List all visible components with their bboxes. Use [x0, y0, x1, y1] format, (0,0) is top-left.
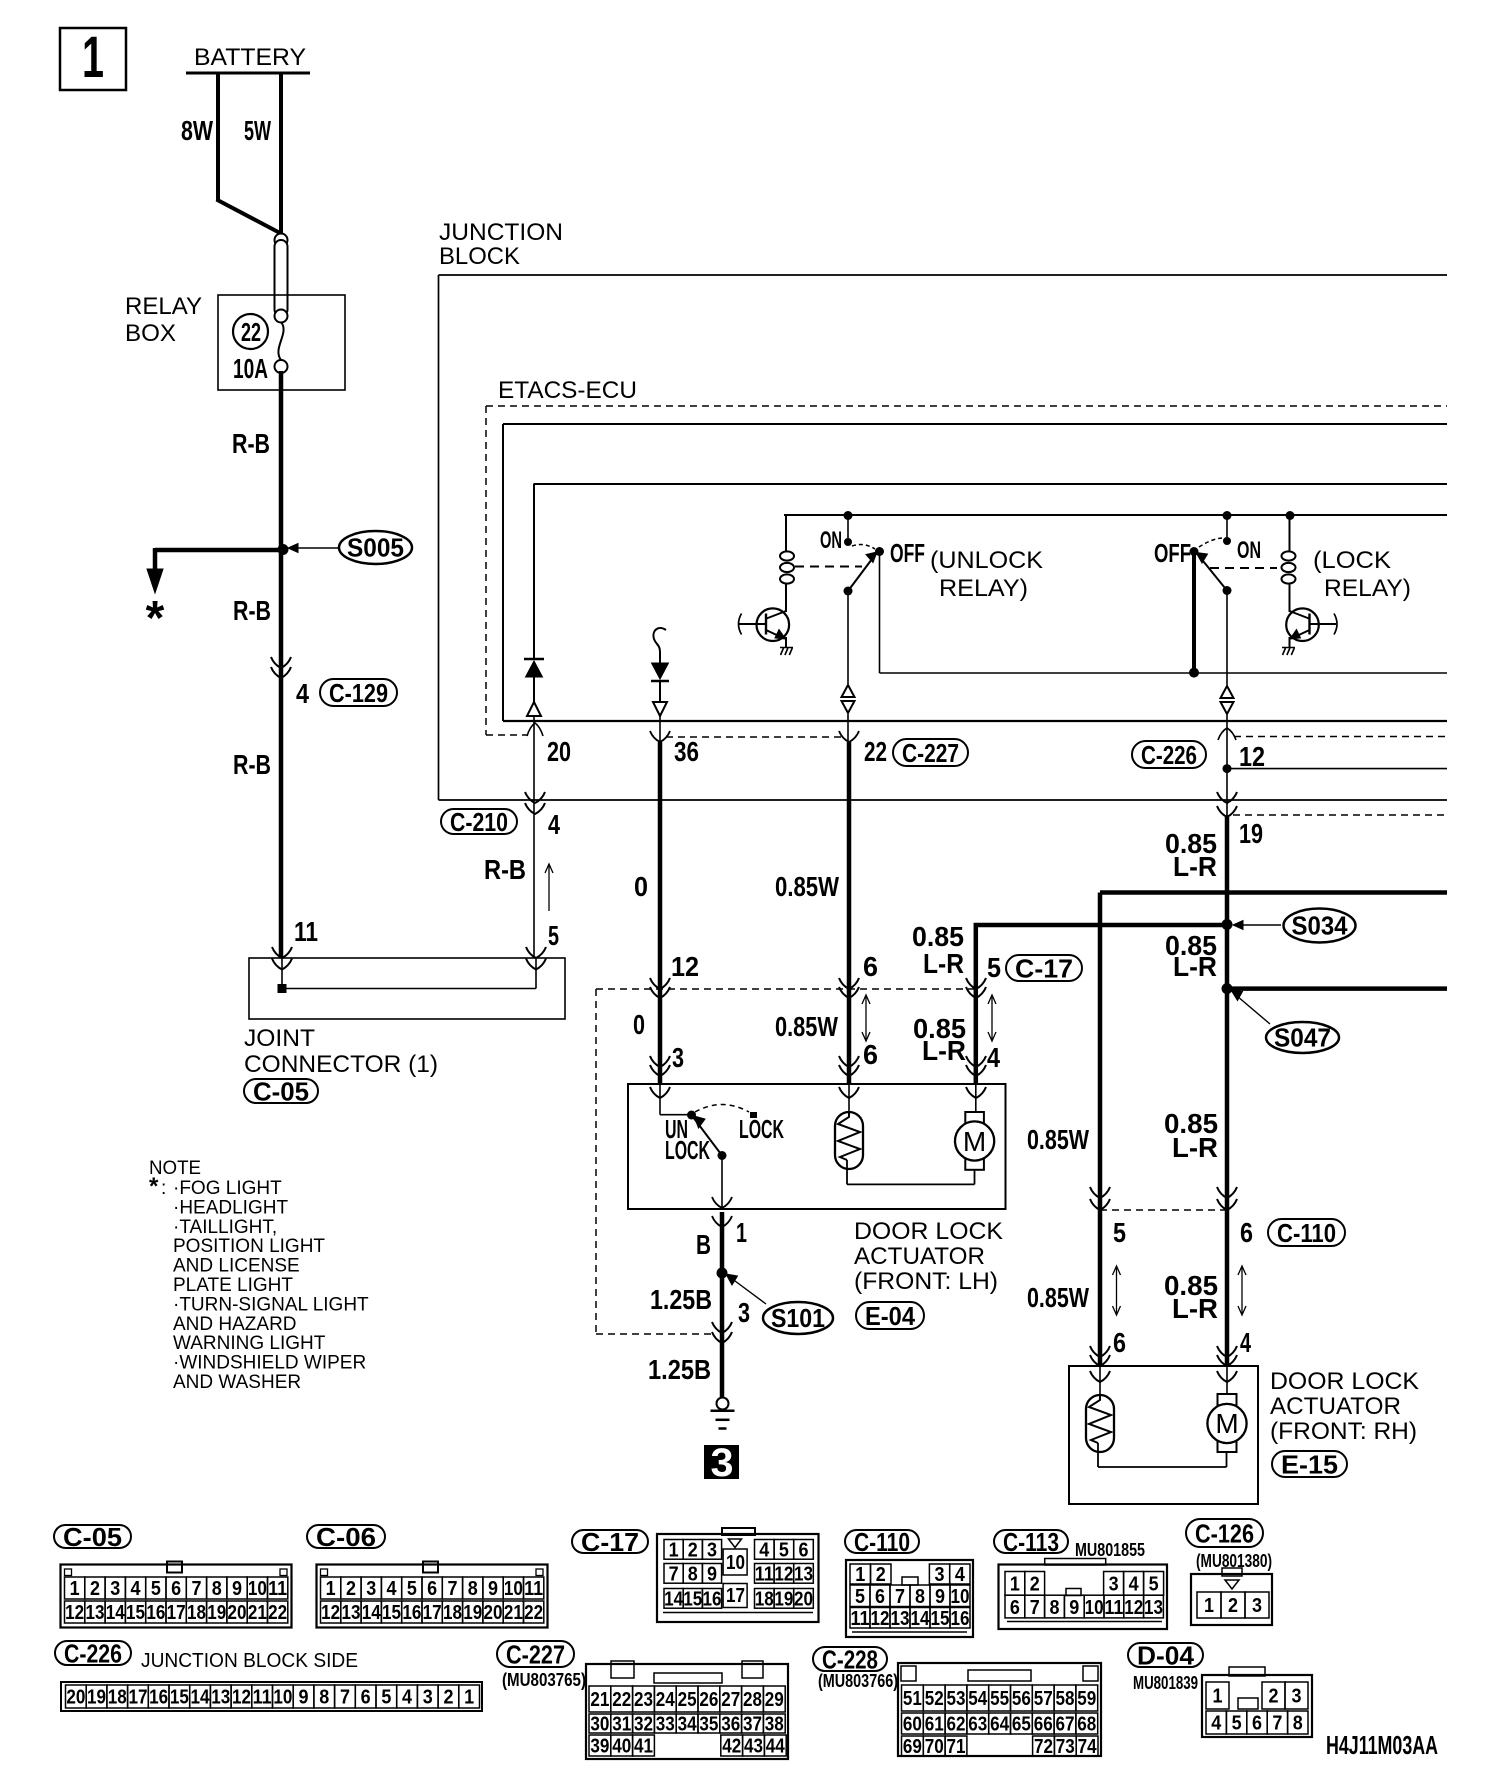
svg-text:37: 37 — [743, 1714, 762, 1736]
svg-text:17: 17 — [167, 1602, 186, 1624]
svg-text:43: 43 — [744, 1736, 763, 1758]
svg-text:13: 13 — [891, 1608, 910, 1630]
svg-text:29: 29 — [765, 1689, 784, 1711]
svg-text:1: 1 — [70, 1578, 80, 1600]
svg-text:6: 6 — [1240, 1217, 1253, 1248]
svg-text:ACTUATOR: ACTUATOR — [1270, 1393, 1401, 1420]
svg-text:1: 1 — [1010, 1574, 1020, 1596]
svg-text:2: 2 — [346, 1578, 356, 1600]
svg-text:12: 12 — [65, 1602, 84, 1624]
svg-text:·TAILLIGHT,: ·TAILLIGHT, — [173, 1217, 277, 1238]
svg-text:66: 66 — [1034, 1714, 1053, 1736]
svg-text:R-B: R-B — [232, 428, 270, 459]
svg-text:AND LICENSE: AND LICENSE — [173, 1256, 300, 1277]
svg-text:15: 15 — [126, 1602, 145, 1624]
svg-text:10: 10 — [726, 1552, 745, 1574]
svg-text:9: 9 — [232, 1578, 242, 1600]
svg-text:7: 7 — [191, 1578, 201, 1600]
svg-text:71: 71 — [947, 1736, 966, 1758]
svg-text:15: 15 — [931, 1608, 950, 1630]
svg-text:8W: 8W — [181, 115, 213, 146]
svg-text:JUNCTION: JUNCTION — [439, 219, 563, 246]
svg-text:·FOG LIGHT: ·FOG LIGHT — [173, 1178, 282, 1199]
svg-text:7: 7 — [895, 1586, 905, 1608]
svg-text:17: 17 — [128, 1687, 147, 1709]
svg-text:61: 61 — [925, 1714, 944, 1736]
svg-text:JUNCTION BLOCK SIDE: JUNCTION BLOCK SIDE — [141, 1650, 358, 1672]
svg-text:38: 38 — [765, 1714, 784, 1736]
svg-text:51: 51 — [903, 1688, 922, 1710]
svg-text:C-227: C-227 — [902, 738, 959, 768]
svg-text:4: 4 — [402, 1687, 413, 1709]
svg-text:R-B: R-B — [484, 854, 526, 885]
svg-text:5: 5 — [987, 952, 1001, 983]
svg-text:10: 10 — [248, 1578, 267, 1600]
svg-text:22: 22 — [612, 1689, 631, 1711]
svg-text:31: 31 — [612, 1714, 631, 1736]
svg-text:4: 4 — [987, 1042, 1000, 1073]
svg-text:15: 15 — [170, 1687, 189, 1709]
svg-text:1.25B: 1.25B — [648, 1354, 711, 1385]
svg-text:36: 36 — [721, 1714, 740, 1736]
svg-text:MU801855: MU801855 — [1075, 1540, 1145, 1560]
svg-text:2: 2 — [1030, 1574, 1040, 1596]
svg-text:4: 4 — [548, 809, 560, 840]
svg-text:BATTERY: BATTERY — [194, 44, 306, 71]
svg-text:5: 5 — [151, 1578, 161, 1600]
svg-text:L-R: L-R — [922, 1035, 966, 1066]
svg-text:3: 3 — [366, 1578, 376, 1600]
svg-text:36: 36 — [674, 736, 699, 767]
svg-text:30: 30 — [590, 1714, 609, 1736]
svg-text:8: 8 — [319, 1687, 329, 1709]
svg-text:5: 5 — [855, 1586, 865, 1608]
svg-text:14: 14 — [664, 1589, 684, 1611]
svg-text:6: 6 — [171, 1578, 181, 1600]
svg-text:9: 9 — [1069, 1597, 1079, 1619]
svg-text:(UNLOCK: (UNLOCK — [930, 547, 1043, 574]
svg-text:13: 13 — [794, 1564, 813, 1586]
svg-text:17: 17 — [726, 1585, 745, 1607]
svg-text:11: 11 — [268, 1578, 287, 1600]
svg-text:·WINDSHIELD WIPER: ·WINDSHIELD WIPER — [173, 1353, 366, 1374]
svg-text:8: 8 — [1050, 1597, 1060, 1619]
svg-text:8: 8 — [915, 1586, 925, 1608]
svg-text:12: 12 — [321, 1602, 340, 1624]
svg-text:2: 2 — [876, 1564, 886, 1586]
svg-text:18: 18 — [187, 1602, 206, 1624]
svg-text:L-R: L-R — [1172, 1293, 1218, 1324]
svg-text:4: 4 — [131, 1578, 142, 1600]
svg-text:12: 12 — [1124, 1597, 1143, 1619]
svg-text:2: 2 — [688, 1540, 698, 1562]
svg-text:4: 4 — [296, 678, 309, 709]
svg-text:S034: S034 — [1292, 911, 1348, 941]
svg-text:15: 15 — [382, 1602, 401, 1624]
svg-text:60: 60 — [903, 1714, 922, 1736]
svg-text:23: 23 — [634, 1689, 653, 1711]
svg-text:22: 22 — [524, 1602, 543, 1624]
svg-text:C-227: C-227 — [506, 1639, 565, 1669]
svg-text:5: 5 — [1113, 1217, 1126, 1248]
svg-text:7: 7 — [447, 1578, 457, 1600]
svg-text:JOINT: JOINT — [244, 1025, 315, 1052]
svg-text:RELAY): RELAY) — [939, 575, 1028, 602]
svg-text:*: * — [149, 1173, 159, 1200]
svg-text:S101: S101 — [771, 1303, 825, 1333]
svg-text:M: M — [963, 1126, 986, 1157]
svg-text:9: 9 — [488, 1578, 498, 1600]
svg-text:(MU803766): (MU803766) — [818, 1671, 898, 1691]
svg-text:1: 1 — [326, 1578, 336, 1600]
svg-text:21: 21 — [248, 1602, 267, 1624]
svg-text:21: 21 — [590, 1689, 609, 1711]
svg-text:2: 2 — [443, 1687, 453, 1709]
svg-text:55: 55 — [990, 1688, 1009, 1710]
svg-text:RELAY): RELAY) — [1324, 575, 1411, 602]
svg-text:28: 28 — [743, 1689, 762, 1711]
svg-text:24: 24 — [656, 1689, 676, 1711]
svg-text:65: 65 — [1012, 1714, 1031, 1736]
svg-text:3: 3 — [738, 1297, 750, 1328]
svg-text:27: 27 — [721, 1689, 740, 1711]
svg-text:12: 12 — [774, 1564, 793, 1586]
svg-text:C-210: C-210 — [450, 807, 508, 837]
svg-text:19: 19 — [1239, 818, 1263, 849]
svg-text:21: 21 — [504, 1602, 523, 1624]
svg-text:CONNECTOR (1): CONNECTOR (1) — [244, 1051, 438, 1078]
svg-text:2: 2 — [1269, 1686, 1279, 1708]
svg-text:M: M — [1215, 1408, 1238, 1439]
svg-text:57: 57 — [1034, 1688, 1053, 1710]
svg-text:15: 15 — [683, 1589, 702, 1611]
svg-text:1: 1 — [464, 1687, 474, 1709]
svg-text:0: 0 — [634, 871, 648, 902]
svg-text:1: 1 — [1213, 1686, 1223, 1708]
svg-text:14: 14 — [911, 1608, 931, 1630]
svg-text:62: 62 — [947, 1714, 966, 1736]
svg-text:16: 16 — [149, 1687, 168, 1709]
svg-text:25: 25 — [678, 1689, 697, 1711]
svg-text:69: 69 — [903, 1736, 922, 1758]
svg-text:16: 16 — [402, 1602, 421, 1624]
svg-text:11: 11 — [253, 1687, 272, 1709]
svg-text:DOOR LOCK: DOOR LOCK — [854, 1218, 1003, 1245]
svg-text:22: 22 — [864, 736, 887, 767]
svg-text:3: 3 — [1252, 1595, 1262, 1617]
svg-text:3: 3 — [1292, 1686, 1302, 1708]
svg-text:39: 39 — [590, 1736, 609, 1758]
svg-text:6: 6 — [361, 1687, 371, 1709]
svg-text:13: 13 — [211, 1687, 230, 1709]
svg-text:ACTUATOR: ACTUATOR — [854, 1243, 985, 1270]
svg-text:(FRONT: LH): (FRONT: LH) — [854, 1268, 998, 1295]
svg-text:6: 6 — [1010, 1597, 1020, 1619]
svg-text:1.25B: 1.25B — [650, 1284, 712, 1315]
svg-text:*: * — [146, 592, 165, 645]
svg-text:B: B — [696, 1229, 711, 1260]
svg-text:L-R: L-R — [1172, 1132, 1218, 1163]
svg-text:20: 20 — [547, 736, 571, 767]
svg-text:L-R: L-R — [923, 948, 964, 979]
svg-text:26: 26 — [699, 1689, 718, 1711]
svg-text:7: 7 — [340, 1687, 350, 1709]
svg-text:6: 6 — [427, 1578, 437, 1600]
svg-text:1: 1 — [736, 1217, 747, 1248]
svg-text:6: 6 — [1113, 1327, 1126, 1358]
svg-text:ETACS-ECU: ETACS-ECU — [498, 377, 637, 404]
svg-text:BOX: BOX — [125, 320, 176, 347]
svg-text:5: 5 — [779, 1540, 789, 1562]
svg-text:10: 10 — [273, 1687, 292, 1709]
svg-text:12: 12 — [671, 951, 699, 982]
svg-text:LOCK: LOCK — [739, 1114, 784, 1144]
svg-text:35: 35 — [699, 1714, 718, 1736]
svg-text:OFF: OFF — [1154, 538, 1191, 568]
svg-text:9: 9 — [299, 1687, 309, 1709]
svg-text:5: 5 — [1232, 1713, 1242, 1735]
svg-text:AND WASHER: AND WASHER — [173, 1372, 301, 1393]
svg-text:C-110: C-110 — [1277, 1218, 1336, 1248]
svg-text:6: 6 — [863, 951, 878, 982]
svg-text:3: 3 — [423, 1687, 433, 1709]
svg-text:18: 18 — [443, 1602, 462, 1624]
svg-text:5: 5 — [1149, 1574, 1159, 1596]
svg-text:1: 1 — [1204, 1595, 1214, 1617]
svg-text:ON: ON — [1237, 537, 1261, 564]
svg-text:·TURN-SIGNAL LIGHT: ·TURN-SIGNAL LIGHT — [173, 1294, 369, 1315]
svg-text:C-126: C-126 — [1195, 1518, 1254, 1548]
svg-text:5: 5 — [407, 1578, 417, 1600]
svg-text:6: 6 — [863, 1039, 878, 1070]
svg-text:68: 68 — [1077, 1714, 1096, 1736]
svg-text:C-129: C-129 — [329, 678, 388, 708]
svg-text:11: 11 — [851, 1608, 870, 1630]
svg-text:·HEADLIGHT: ·HEADLIGHT — [173, 1197, 288, 1218]
svg-text:6: 6 — [875, 1586, 885, 1608]
svg-text:22: 22 — [241, 317, 261, 347]
svg-text:12: 12 — [871, 1608, 890, 1630]
svg-text:3: 3 — [707, 1540, 717, 1562]
svg-text:2: 2 — [90, 1578, 100, 1600]
svg-text:12: 12 — [232, 1687, 251, 1709]
svg-text:1: 1 — [855, 1564, 865, 1586]
svg-text:20: 20 — [794, 1589, 813, 1611]
svg-text:E-15: E-15 — [1281, 1449, 1338, 1479]
svg-text:54: 54 — [968, 1688, 988, 1710]
svg-text:0: 0 — [633, 1009, 645, 1040]
svg-text:1: 1 — [669, 1540, 679, 1562]
svg-text:7: 7 — [669, 1564, 679, 1586]
svg-text:1: 1 — [82, 25, 104, 90]
svg-text:17: 17 — [423, 1602, 442, 1624]
svg-text:32: 32 — [634, 1714, 653, 1736]
svg-text:9: 9 — [707, 1564, 717, 1586]
svg-text:42: 42 — [722, 1736, 741, 1758]
svg-text:14: 14 — [191, 1687, 211, 1709]
svg-text:11: 11 — [294, 916, 318, 947]
svg-text:3: 3 — [672, 1042, 684, 1073]
svg-text:59: 59 — [1077, 1688, 1096, 1710]
svg-text:4: 4 — [955, 1564, 966, 1586]
svg-text:E-04: E-04 — [865, 1301, 915, 1331]
svg-text:6: 6 — [1252, 1713, 1262, 1735]
svg-text:3: 3 — [935, 1564, 945, 1586]
svg-text:C-05: C-05 — [253, 1076, 309, 1106]
svg-text:4: 4 — [1211, 1713, 1222, 1735]
svg-text:0.85W: 0.85W — [1027, 1124, 1089, 1155]
svg-text:8: 8 — [468, 1578, 478, 1600]
svg-text:R-B: R-B — [233, 595, 271, 626]
svg-text:5W: 5W — [244, 115, 271, 146]
svg-text:C-113: C-113 — [1003, 1527, 1059, 1557]
svg-text:52: 52 — [925, 1688, 944, 1710]
svg-text:L-R: L-R — [1173, 851, 1217, 882]
svg-text:22: 22 — [268, 1602, 287, 1624]
svg-text:6: 6 — [799, 1540, 809, 1562]
svg-text:14: 14 — [362, 1602, 382, 1624]
svg-text:3: 3 — [1109, 1574, 1119, 1596]
svg-text:10: 10 — [951, 1586, 970, 1608]
svg-text:BLOCK: BLOCK — [439, 243, 520, 270]
svg-text:C-110: C-110 — [854, 1527, 910, 1557]
svg-text:D-04: D-04 — [1137, 1640, 1195, 1670]
svg-text:41: 41 — [634, 1736, 653, 1758]
svg-text:AND HAZARD: AND HAZARD — [173, 1314, 297, 1335]
svg-text:C-17: C-17 — [581, 1527, 639, 1557]
svg-text:64: 64 — [990, 1714, 1010, 1736]
svg-text:8: 8 — [212, 1578, 222, 1600]
svg-text:0.85W: 0.85W — [1027, 1282, 1089, 1313]
svg-text:11: 11 — [755, 1564, 774, 1586]
svg-text:18: 18 — [108, 1687, 127, 1709]
svg-text:C-228: C-228 — [822, 1644, 878, 1674]
svg-text:14: 14 — [106, 1602, 126, 1624]
svg-text:20: 20 — [484, 1602, 503, 1624]
svg-text:16: 16 — [951, 1608, 970, 1630]
svg-text::: : — [161, 1178, 166, 1199]
svg-text:10: 10 — [1085, 1597, 1104, 1619]
svg-text:S005: S005 — [347, 533, 404, 563]
svg-text:ON: ON — [820, 527, 842, 554]
svg-text:70: 70 — [925, 1736, 944, 1758]
svg-text:67: 67 — [1056, 1714, 1075, 1736]
svg-text:(FRONT: RH): (FRONT: RH) — [1270, 1418, 1417, 1445]
svg-text:13: 13 — [85, 1602, 104, 1624]
svg-text:S047: S047 — [1274, 1023, 1331, 1053]
svg-text:8: 8 — [1293, 1713, 1303, 1735]
svg-text:4: 4 — [387, 1578, 398, 1600]
svg-text:RELAY: RELAY — [125, 293, 202, 320]
svg-text:10: 10 — [504, 1578, 523, 1600]
svg-text:13: 13 — [341, 1602, 360, 1624]
svg-text:OFF: OFF — [890, 538, 925, 568]
svg-text:11: 11 — [524, 1578, 543, 1600]
svg-text:8: 8 — [688, 1564, 698, 1586]
svg-text:0.85W: 0.85W — [775, 871, 839, 902]
svg-text:33: 33 — [656, 1714, 675, 1736]
svg-text:POSITION LIGHT: POSITION LIGHT — [173, 1236, 325, 1257]
svg-text:19: 19 — [774, 1589, 793, 1611]
svg-text:20: 20 — [66, 1687, 85, 1709]
svg-text:C-226: C-226 — [1141, 740, 1197, 770]
svg-text:56: 56 — [1012, 1688, 1031, 1710]
svg-text:5: 5 — [548, 920, 559, 951]
svg-text:44: 44 — [766, 1736, 786, 1758]
svg-text:3: 3 — [711, 1441, 734, 1485]
svg-text:58: 58 — [1056, 1688, 1075, 1710]
svg-text:3: 3 — [110, 1578, 120, 1600]
svg-text:7: 7 — [1030, 1597, 1040, 1619]
svg-text:0.85W: 0.85W — [775, 1011, 838, 1042]
svg-text:74: 74 — [1078, 1736, 1098, 1758]
svg-text:DOOR LOCK: DOOR LOCK — [1270, 1368, 1419, 1395]
svg-text:16: 16 — [146, 1602, 165, 1624]
svg-text:20: 20 — [228, 1602, 247, 1624]
svg-text:5: 5 — [381, 1687, 391, 1709]
svg-text:LOCK: LOCK — [665, 1135, 710, 1165]
svg-text:11: 11 — [1104, 1597, 1123, 1619]
svg-text:19: 19 — [463, 1602, 482, 1624]
svg-text:73: 73 — [1056, 1736, 1075, 1758]
svg-text:53: 53 — [947, 1688, 966, 1710]
svg-text:7: 7 — [1272, 1713, 1282, 1735]
svg-text:WARNING LIGHT: WARNING LIGHT — [173, 1333, 326, 1354]
svg-text:C-05: C-05 — [63, 1522, 122, 1552]
svg-text:72: 72 — [1034, 1736, 1053, 1758]
svg-text:4: 4 — [759, 1540, 770, 1562]
svg-text:4: 4 — [1240, 1327, 1251, 1358]
svg-text:16: 16 — [703, 1589, 722, 1611]
svg-text:MU801839: MU801839 — [1133, 1673, 1198, 1693]
svg-text:(LOCK: (LOCK — [1313, 547, 1391, 574]
svg-text:34: 34 — [678, 1714, 698, 1736]
svg-text:C-06: C-06 — [316, 1522, 376, 1552]
svg-text:40: 40 — [612, 1736, 631, 1758]
svg-text:19: 19 — [87, 1687, 106, 1709]
svg-text:C-17: C-17 — [1015, 953, 1073, 983]
svg-text:4: 4 — [1129, 1574, 1140, 1596]
svg-text:63: 63 — [968, 1714, 987, 1736]
svg-text:C-226: C-226 — [64, 1638, 122, 1668]
svg-text:PLATE LIGHT: PLATE LIGHT — [173, 1275, 293, 1296]
svg-text:R-B: R-B — [233, 749, 271, 780]
svg-text:2: 2 — [1228, 1595, 1238, 1617]
svg-text:(MU803765): (MU803765) — [502, 1670, 586, 1690]
svg-text:10A: 10A — [233, 353, 268, 384]
svg-text:13: 13 — [1144, 1597, 1163, 1619]
svg-text:19: 19 — [207, 1602, 226, 1624]
svg-text:H4J11M03AA: H4J11M03AA — [1326, 1730, 1438, 1760]
svg-text:18: 18 — [755, 1589, 774, 1611]
svg-text:12: 12 — [1239, 741, 1265, 772]
svg-text:L-R: L-R — [1173, 951, 1217, 982]
svg-text:9: 9 — [935, 1586, 945, 1608]
